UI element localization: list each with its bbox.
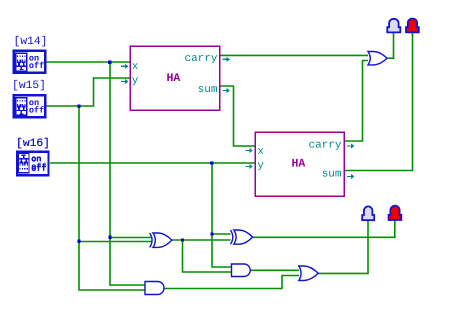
svg-text:HA: HA bbox=[166, 72, 180, 85]
svg-text:[w15]: [w15] bbox=[12, 79, 46, 92]
svg-text:sum: sum bbox=[198, 84, 218, 96]
svg-text:[w14]: [w14] bbox=[14, 35, 48, 48]
svg-text:carry: carry bbox=[308, 140, 341, 152]
svg-text:off: off bbox=[29, 105, 44, 115]
svg-text:sum: sum bbox=[322, 168, 342, 180]
svg-text:carry: carry bbox=[184, 53, 217, 65]
svg-text:[w16]: [w16] bbox=[16, 137, 50, 150]
svg-text:off: off bbox=[31, 164, 46, 174]
svg-text:y: y bbox=[132, 75, 139, 87]
svg-text:on: on bbox=[31, 154, 41, 164]
svg-text:x: x bbox=[257, 146, 264, 158]
svg-text:y: y bbox=[257, 160, 264, 172]
svg-text:HA: HA bbox=[291, 158, 305, 171]
svg-text:x: x bbox=[132, 61, 139, 73]
svg-text:off: off bbox=[29, 61, 44, 71]
